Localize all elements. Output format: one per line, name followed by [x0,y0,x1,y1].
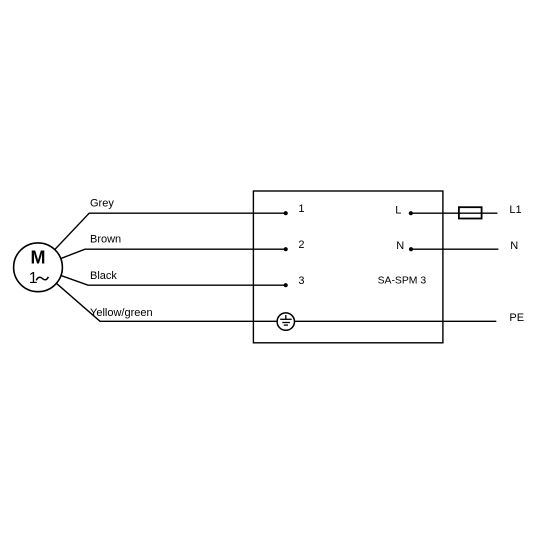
svg-text:Yellow/green: Yellow/green [90,307,153,319]
motor M 1~ [14,243,63,292]
terminal dot N [409,247,413,251]
wire N (terminal N to N) [411,248,498,250]
svg-text:1: 1 [29,270,38,287]
terminal dot L [409,211,413,215]
ground symbol (protective earth in circle) [277,313,294,330]
wire yellow/green PE (motor to ground symbol to PE) [38,267,496,321]
svg-text:N: N [396,240,404,252]
terminal dot 1 [284,211,288,215]
wire black (motor to terminal 3) [38,267,286,285]
wire brown (motor to terminal 2) [38,249,286,267]
svg-text:M: M [31,248,46,268]
svg-text:SA-SPM 3: SA-SPM 3 [378,276,427,287]
svg-text:Brown: Brown [90,234,121,246]
svg-text:3: 3 [298,275,304,287]
svg-text:Grey: Grey [90,198,114,210]
svg-text:L: L [395,204,401,216]
wire grey (motor to terminal 1) [38,213,286,267]
control box SA-SPM 3 outline [253,191,443,343]
svg-text:L1: L1 [509,204,521,216]
wire L (terminal L to L1 through fuse) [411,212,498,214]
svg-text:1: 1 [298,203,304,215]
terminal dot 3 [284,283,288,287]
terminal dot 2 [284,247,288,251]
svg-text:PE: PE [509,312,524,324]
svg-text:Black: Black [90,270,117,282]
svg-text:N: N [510,240,518,252]
svg-text:2: 2 [298,239,304,251]
fuse F1 [459,207,482,218]
